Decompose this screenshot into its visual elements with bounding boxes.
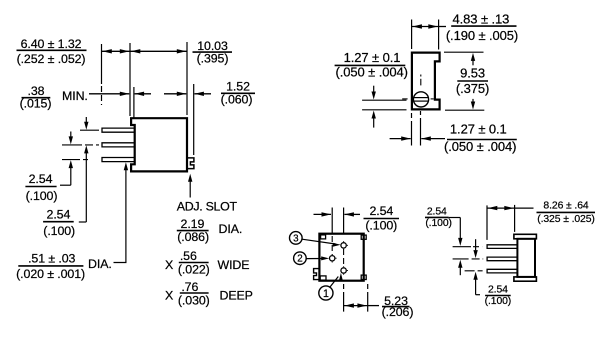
- view A: pin 3 (bottom lead): [102, 158, 135, 162]
- view A: first 2.54 label and leader: [60, 184, 71, 186]
- view C: 5.23 dim arrows: [344, 305, 368, 307]
- svg-text:(.030): (.030): [178, 293, 210, 307]
- view C: circled pin number 2: [294, 252, 307, 265]
- view C: leader from 2 to pin2 hole: [306, 258, 324, 260]
- view D: pin 1 centerline extension: [453, 246, 471, 248]
- svg-text:.76: .76: [181, 280, 198, 294]
- view C: side tab on left edge: [314, 269, 320, 280]
- view A: .38 MIN leader and arrows: [89, 93, 129, 95]
- view C: corner foot bottom-right: [361, 275, 366, 279]
- svg-text:2.19: 2.19: [181, 217, 205, 231]
- svg-text:.51 ± .03: .51 ± .03: [28, 252, 75, 266]
- view B: dimension 9.53 arrows: [472, 58, 474, 65]
- view A: pin 2 (middle lead): [102, 143, 135, 147]
- view D: 8.26 dim arrow line: [487, 207, 515, 209]
- svg-text:.56: .56: [180, 249, 197, 263]
- view A: pin spacing 2.54 upper dim arrows between pin2 and pin3: [70, 132, 72, 138]
- svg-text:(.050 ± .004): (.050 ± .004): [336, 65, 408, 80]
- view A: pin 2 centerline extension: [62, 144, 99, 146]
- view A: .51 DIA leader arrow to pin 3: [114, 167, 126, 263]
- view A: extension line left of body: [129, 43, 131, 116]
- view B: screw slot chord lines: [414, 97, 429, 99]
- svg-text:MIN.: MIN.: [62, 89, 88, 103]
- view A: pin 1 (top lead): [102, 128, 135, 132]
- svg-text:DEEP: DEEP: [220, 289, 253, 303]
- view B: bottom 1.27 dim arrows: [390, 138, 411, 140]
- view D: pin 2: [487, 257, 517, 261]
- view D: body bottom cap: [514, 277, 537, 281]
- svg-text:(.100): (.100): [425, 218, 452, 229]
- view D: pin 3: [487, 269, 517, 273]
- svg-text:WIDE: WIDE: [218, 258, 250, 272]
- svg-text:(.060): (.060): [221, 93, 253, 107]
- svg-text:1.27 ± 0.1: 1.27 ± 0.1: [450, 122, 507, 137]
- view C: corner foot top-left: [321, 235, 326, 239]
- svg-text:(.100): (.100): [485, 296, 512, 307]
- svg-text:2.54: 2.54: [427, 207, 447, 218]
- view A: extension line at pin tips: [101, 44, 103, 84]
- svg-text:2: 2: [297, 254, 302, 265]
- view A: pin 1 centerline extension: [80, 129, 99, 131]
- svg-text:2.54: 2.54: [47, 207, 71, 221]
- svg-text:(.252 ± .052): (.252 ± .052): [17, 52, 86, 66]
- view C: circled pin number 3: [290, 232, 303, 245]
- svg-text:2.54: 2.54: [29, 172, 53, 186]
- view D: bottom 2.54 leader: [476, 294, 480, 296]
- svg-text:4.83 ± .13: 4.83 ± .13: [453, 12, 510, 27]
- svg-text:3: 3: [293, 233, 299, 244]
- svg-text:2.54: 2.54: [369, 204, 393, 218]
- svg-text:(.206): (.206): [382, 305, 414, 319]
- view C: pin 3 hole: [341, 243, 346, 248]
- view A: dimension 1.52 arrows: [164, 93, 186, 95]
- view B: dimension 4.83 extension lines: [411, 20, 413, 50]
- svg-text:X: X: [165, 258, 173, 272]
- svg-text:(.325 ± .025): (.325 ± .025): [537, 214, 595, 225]
- view B: left 1.27 dim arrows: [373, 86, 375, 93]
- view C: corner foot bottom-left: [320, 276, 326, 280]
- view A: ADJ. SLOT leader arrow: [189, 180, 191, 198]
- view C: 5.23 extension lines: [343, 284, 345, 312]
- view B: screw centerline dashes: [420, 75, 422, 77]
- view C: top 2.54 dim arrows: [314, 213, 332, 215]
- svg-text:(.375): (.375): [456, 81, 489, 96]
- view D: top 2.54 leader: [449, 217, 461, 219]
- view D: 8.26 extension line at body edge: [514, 205, 516, 232]
- view A: extension line at screw tab edge: [193, 84, 195, 155]
- view A: extension line for .38 gap: [133, 87, 135, 119]
- svg-text:6.40 ± 1.32: 6.40 ± 1.32: [21, 37, 82, 51]
- view D: body top cap: [514, 234, 537, 239]
- view B: bottom 1.27 extension lines: [411, 113, 413, 146]
- svg-text:1.27 ± 0.1: 1.27 ± 0.1: [344, 50, 401, 65]
- view D: body main outline: [517, 239, 535, 277]
- svg-text:(.100): (.100): [365, 218, 397, 232]
- view B: dimension 4.83 arrow line: [412, 26, 439, 28]
- svg-text:ADJ. SLOT: ADJ. SLOT: [177, 200, 238, 214]
- view D: pin 3 centerline extension: [465, 270, 484, 272]
- view D: 8.26 extension line at pin tips: [486, 205, 488, 240]
- view A: pin 3 centerline extension: [62, 159, 90, 161]
- svg-text:1.52: 1.52: [226, 79, 250, 93]
- view A: second 2.54 label and leader: [79, 221, 87, 223]
- svg-text:(.086): (.086): [177, 230, 209, 244]
- view D: top 2.54 dim arrows pin1-pin2: [459, 226, 461, 238]
- view D: pin 2 centerline extension: [453, 258, 484, 260]
- view B: adjustment screw circle: [413, 92, 428, 107]
- view C: dashed centerline pin2 column: [331, 208, 333, 234]
- svg-text:(.050 ± .004): (.050 ± .004): [444, 139, 516, 154]
- svg-text:(.015): (.015): [20, 97, 52, 111]
- svg-text:8.26 ± .64: 8.26 ± .64: [543, 200, 588, 211]
- svg-text:(.100): (.100): [26, 189, 58, 203]
- svg-text:(.190 ± .005): (.190 ± .005): [446, 28, 518, 43]
- view A: extension line at body right edge: [186, 42, 188, 115]
- view C: circled pin number 1: [319, 286, 333, 300]
- svg-text:DIA.: DIA.: [219, 222, 243, 236]
- view C: pin 2 hole: [330, 256, 335, 261]
- view C: corner foot top-right: [361, 235, 366, 239]
- svg-text:(.022): (.022): [178, 263, 210, 277]
- view A: dimension 6.40 arrow line: [102, 50, 131, 52]
- svg-text:1: 1: [323, 288, 329, 300]
- view D: pin 1: [487, 245, 517, 249]
- svg-text:2.54: 2.54: [488, 285, 508, 296]
- svg-text:(.100): (.100): [43, 224, 75, 238]
- view A: dimension 10.03 arrow line: [130, 50, 187, 52]
- svg-text:(.395): (.395): [197, 51, 229, 65]
- view B: trimmer body end view outline: [412, 53, 440, 110]
- svg-text:9.53: 9.53: [460, 66, 485, 81]
- view A: pin spacing 2.54 lower dim arrows between pin1 and pin2: [85, 117, 87, 123]
- view C: leader from 3 to pin3 hole: [302, 239, 335, 244]
- view B: dimension 9.53 extension lines: [444, 51, 484, 53]
- view C: dashed centerline pin1/pin3 column: [343, 208, 345, 234]
- view A: trimmer body side view outline: [131, 118, 187, 171]
- svg-text:X: X: [165, 289, 173, 303]
- view C: pin 1 hole: [341, 268, 346, 273]
- view C: leader from 1 to pin1 hole: [329, 277, 338, 288]
- view B: left 1.27 extension lines: [362, 99, 406, 101]
- svg-text:DIA.: DIA.: [88, 257, 112, 271]
- view D: bottom 2.54 dim arrows pin2-pin3: [475, 239, 477, 250]
- view A: adjustment screw slot tab on right side: [188, 158, 194, 169]
- view C: trimmer body top view outline: [319, 234, 363, 281]
- svg-text:(.020 ± .001): (.020 ± .001): [16, 267, 85, 281]
